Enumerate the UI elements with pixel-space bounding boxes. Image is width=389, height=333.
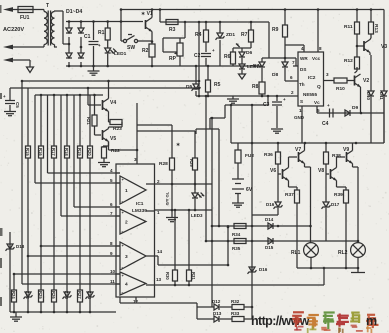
svg-text:DS: DS	[300, 67, 306, 72]
svg-text:V8: V8	[318, 168, 324, 174]
svg-text:C2: C2	[194, 53, 201, 59]
svg-text:D15: D15	[265, 245, 274, 250]
svg-text:2: 2	[157, 179, 160, 184]
svg-text:+: +	[98, 43, 101, 48]
svg-text:D6: D6	[246, 50, 252, 56]
svg-text:+: +	[327, 103, 330, 108]
svg-text:Vcc: Vcc	[312, 56, 321, 61]
svg-text:V9: V9	[343, 147, 349, 153]
svg-text:R13: R13	[373, 24, 379, 33]
svg-text:V5: V5	[110, 136, 116, 142]
svg-text:V6: V6	[270, 168, 276, 174]
svg-text:5: 5	[110, 178, 113, 183]
svg-text:D13: D13	[213, 311, 222, 316]
svg-text:D14: D14	[265, 217, 274, 222]
svg-text:RP: RP	[169, 56, 177, 62]
svg-text:ZD1: ZD1	[226, 32, 235, 38]
svg-text:V7: V7	[295, 147, 301, 153]
svg-text:R31: R31	[191, 272, 196, 280]
svg-text:4: 4	[125, 282, 128, 288]
svg-text:1: 1	[125, 188, 128, 194]
svg-text:D16: D16	[266, 202, 275, 207]
svg-text:R28: R28	[159, 161, 168, 167]
svg-text:+: +	[3, 94, 6, 99]
svg-text:IC1: IC1	[136, 201, 144, 207]
svg-text:3: 3	[125, 254, 128, 260]
svg-text:R10: R10	[336, 86, 345, 92]
svg-text:R34: R34	[232, 232, 241, 237]
svg-text:R37: R37	[285, 192, 294, 198]
svg-text:10: 10	[110, 269, 116, 274]
svg-text:V2: V2	[363, 78, 369, 84]
svg-text:12: 12	[133, 299, 139, 304]
svg-text:NE555: NE555	[303, 92, 317, 97]
svg-text:Th: Th	[299, 82, 305, 87]
svg-text:3: 3	[326, 72, 329, 77]
svg-text:1: 1	[157, 210, 160, 215]
svg-text:C1: C1	[84, 34, 91, 40]
svg-text:4: 4	[301, 46, 304, 51]
svg-text:LM339: LM339	[132, 208, 147, 214]
svg-text:6: 6	[110, 202, 113, 207]
svg-text:R8: R8	[252, 84, 259, 90]
svg-text:R17: R17	[51, 148, 56, 156]
svg-text:R2: R2	[142, 48, 149, 54]
svg-text:6V: 6V	[246, 187, 253, 193]
svg-text:T: T	[46, 3, 49, 9]
svg-text:R4: R4	[195, 32, 202, 38]
svg-text:D18: D18	[16, 244, 25, 249]
svg-text:GND: GND	[294, 115, 305, 120]
svg-text:3: 3	[134, 157, 137, 162]
svg-text:ZD4: ZD4	[87, 291, 92, 300]
svg-text:5: 5	[317, 108, 320, 113]
svg-text:+: +	[212, 48, 215, 53]
svg-text:D1~D4: D1~D4	[66, 9, 82, 15]
svg-text:V4: V4	[110, 100, 116, 106]
svg-text:D12: D12	[212, 299, 221, 304]
svg-text:C5: C5	[15, 102, 20, 108]
svg-text:AC220V: AC220V	[3, 27, 24, 33]
svg-text:Vc: Vc	[314, 100, 320, 105]
svg-text:R12: R12	[344, 58, 353, 64]
svg-text:FU1: FU1	[20, 15, 30, 21]
svg-text:8: 8	[110, 241, 113, 246]
svg-text:R24: R24	[11, 291, 16, 299]
svg-text:R20: R20	[87, 148, 92, 156]
svg-text:6: 6	[290, 75, 293, 80]
svg-text:V3: V3	[381, 44, 387, 50]
svg-text:11: 11	[110, 279, 115, 284]
svg-text:R39: R39	[334, 192, 343, 198]
svg-text:R22: R22	[111, 148, 120, 154]
svg-text:C3: C3	[263, 102, 270, 108]
svg-text:R7: R7	[241, 32, 248, 38]
svg-text:D16: D16	[259, 267, 268, 272]
svg-text:LED3: LED3	[191, 213, 203, 218]
svg-text:R35: R35	[232, 246, 241, 251]
svg-text:R33: R33	[231, 311, 240, 316]
svg-text:ZD3: ZD3	[64, 291, 69, 300]
svg-text:R23: R23	[113, 126, 122, 132]
svg-text:D5: D5	[186, 84, 192, 90]
svg-text:D17: D17	[331, 202, 340, 207]
svg-text:13: 13	[156, 277, 162, 282]
svg-text:R6: R6	[224, 54, 231, 60]
svg-text:D9: D9	[352, 105, 358, 111]
svg-text:R11: R11	[344, 24, 353, 30]
svg-text:D7: D7	[253, 63, 259, 69]
svg-text:D10: D10	[366, 92, 371, 100]
svg-text:7: 7	[110, 211, 113, 216]
svg-text:2: 2	[125, 220, 128, 226]
svg-text:R26: R26	[51, 291, 56, 299]
svg-text:m: m	[366, 314, 377, 328]
svg-text:R16: R16	[38, 148, 43, 156]
svg-text:R19: R19	[77, 148, 82, 156]
svg-text:R3: R3	[169, 27, 176, 33]
svg-text:+: +	[283, 97, 286, 102]
svg-text:RL2: RL2	[338, 250, 348, 256]
svg-text:1: 1	[299, 108, 302, 113]
svg-text:8: 8	[319, 46, 322, 51]
svg-text:∗: ∗	[176, 142, 180, 148]
svg-text:7: 7	[292, 60, 295, 65]
svg-text:2: 2	[291, 90, 294, 95]
svg-text:∗ V1: ∗ V1	[141, 11, 153, 17]
svg-text:Q: Q	[317, 84, 321, 90]
svg-text:R36: R36	[264, 152, 273, 158]
svg-text:R5: R5	[214, 82, 221, 88]
svg-text:C4: C4	[322, 121, 329, 127]
svg-text:S: S	[300, 99, 303, 104]
svg-text:ZD2: ZD2	[25, 291, 30, 300]
svg-text:R38: R38	[332, 153, 341, 159]
svg-text:WR: WR	[300, 56, 308, 61]
svg-text:RL1: RL1	[291, 250, 301, 256]
svg-text:4: 4	[110, 168, 113, 173]
svg-text:R15: R15	[25, 148, 30, 156]
svg-text:R18: R18	[64, 148, 69, 156]
svg-text:14: 14	[157, 249, 163, 254]
svg-text:R9: R9	[272, 27, 279, 33]
svg-text:9: 9	[110, 251, 113, 256]
svg-text:LED1: LED1	[114, 51, 127, 57]
